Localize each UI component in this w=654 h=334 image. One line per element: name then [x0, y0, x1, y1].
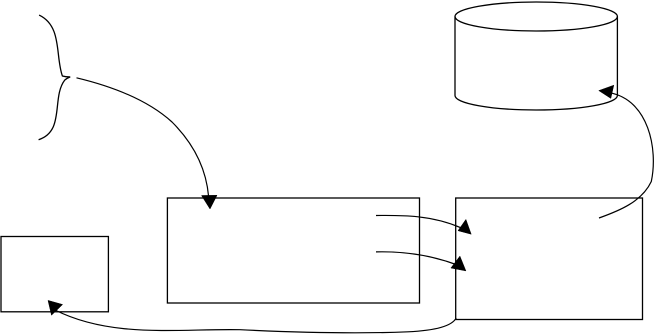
arrowhead 2 into right rectangle: [451, 256, 466, 271]
arrowhead into cylinder bottom right: [599, 85, 614, 98]
arrow: right rect to cylinder (big curve): [599, 93, 653, 218]
right rectangle: [456, 198, 643, 320]
arrowhead 1 into right rectangle: [458, 219, 471, 234]
small rectangle (bottom left): [1, 237, 108, 312]
arrow: right rect to small rect (long bottom curve): [55, 310, 456, 333]
arrowhead into middle rectangle top: [202, 195, 218, 209]
arrowhead into small rectangle bottom: [48, 300, 63, 315]
curly brace (left): [39, 15, 71, 140]
arrow: brace to middle rectangle (curve): [77, 78, 209, 197]
cylinder (database): [455, 2, 617, 110]
arrow line 1: middle rect to right rect (upper): [376, 215, 461, 227]
arrow line 2: middle rect to right rect (lower): [376, 252, 456, 265]
middle rectangle: [167, 198, 419, 303]
